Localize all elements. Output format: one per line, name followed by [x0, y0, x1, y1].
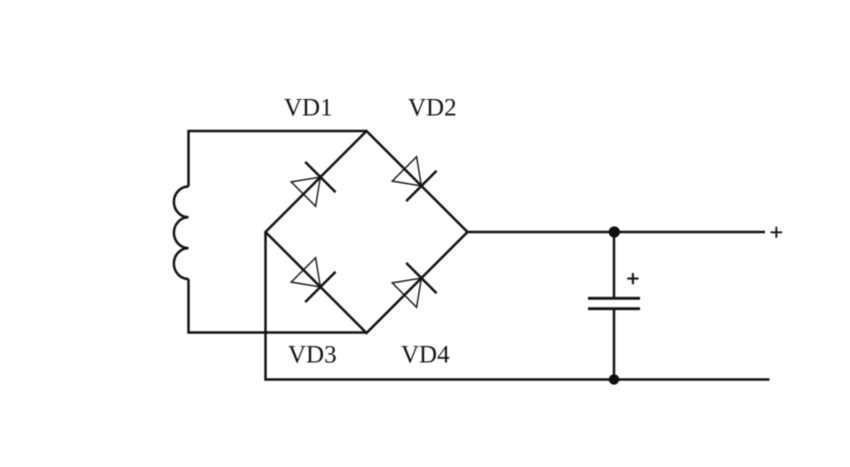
svg-text:VD3: VD3	[288, 342, 337, 369]
svg-text:VD2: VD2	[408, 95, 457, 122]
svg-text:VD4: VD4	[401, 342, 450, 369]
svg-text:VD1: VD1	[284, 95, 333, 122]
